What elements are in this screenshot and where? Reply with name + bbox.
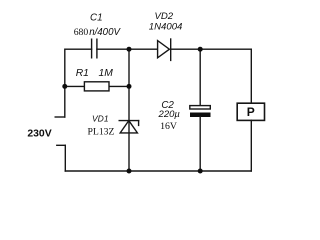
resistor R1 body <box>84 82 109 91</box>
junction dot R1 left <box>62 84 67 89</box>
wire top rail left: corner to C1 <box>65 49 92 117</box>
wire node B down through C2 <box>199 49 201 105</box>
capacitor C2 bottom plate <box>190 113 211 118</box>
svg-text:16V: 16V <box>160 121 177 132</box>
svg-text:230V: 230V <box>27 128 51 139</box>
wire C2 to bottom rail <box>199 117 201 171</box>
wire VD2 cathode to right corner (through node B) <box>171 49 252 103</box>
svg-text:R1: R1 <box>76 68 89 79</box>
junction dot C2 bottom rail <box>198 169 203 174</box>
wire node A down to R1 right end <box>128 49 130 86</box>
svg-text:VD1: VD1 <box>92 114 109 124</box>
svg-text:P: P <box>247 105 255 119</box>
zener diode VD1 symbol <box>119 121 138 133</box>
junction dot R1 right / node A drop <box>127 84 132 89</box>
terminal tick upper input <box>55 116 65 118</box>
svg-text:PL13Z: PL13Z <box>88 126 115 137</box>
svg-text:220µ: 220µ <box>158 109 181 120</box>
wire C1 to VD2 anode (through node A) <box>97 48 158 50</box>
wire R1 row <box>65 85 129 87</box>
node A junction dot <box>127 47 132 52</box>
wire lower input to bottom rail <box>64 145 66 171</box>
junction dot VD1 bottom rail <box>127 169 132 174</box>
svg-text:1N4004: 1N4004 <box>149 22 183 33</box>
node B junction dot <box>198 47 203 52</box>
box P (load) <box>237 103 264 120</box>
wire bottom rail <box>65 170 251 172</box>
svg-text:1M: 1M <box>99 68 114 79</box>
wire node R1/VD1 down through zener <box>128 86 130 171</box>
svg-text:VD2: VD2 <box>154 11 173 22</box>
capacitor C1 plates <box>92 39 97 58</box>
capacitor C2 top plate <box>190 106 211 109</box>
terminal tick lower input <box>57 144 66 146</box>
svg-text:680n/400V: 680n/400V <box>74 27 122 38</box>
svg-text:C1: C1 <box>90 12 103 23</box>
wire P box to bottom rail <box>250 120 252 171</box>
diode VD2 symbol <box>158 39 171 60</box>
